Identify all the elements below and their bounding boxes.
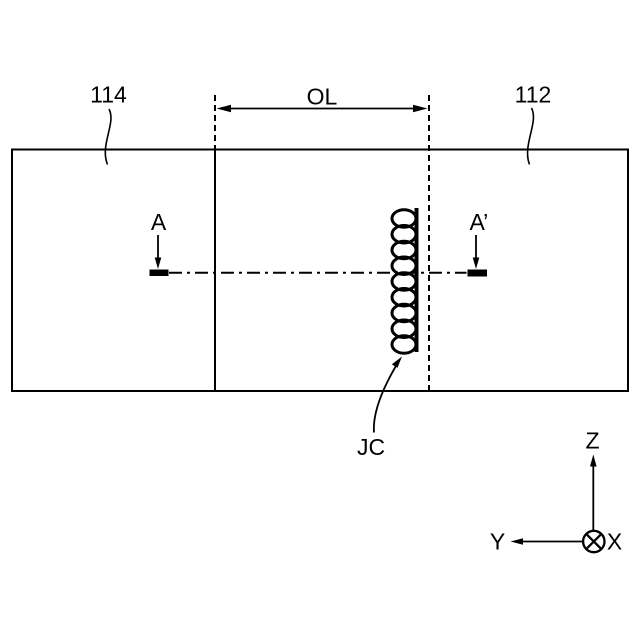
coil JC turn 9 [392, 336, 416, 354]
X axis symbol (circle with cross, pointing into page) [583, 531, 604, 552]
coil JC turn 3 [392, 241, 416, 259]
svg-text:JC: JC [357, 434, 385, 460]
svg-text:X: X [607, 529, 622, 555]
coil JC turn 4 [392, 257, 416, 275]
section tick A' [468, 270, 488, 277]
coil JC turn 7 [392, 304, 416, 322]
Z axis arrow [590, 455, 597, 531]
coil JC turn 2 [392, 226, 416, 244]
dashed extension line right (overlap boundary at x=429) [428, 95, 430, 391]
leader line 114 [105, 109, 111, 165]
svg-text:Z: Z [585, 428, 599, 454]
arrow A' (section pointer) [473, 235, 480, 269]
coil JC turn 1 [392, 210, 416, 228]
svg-text:A: A [151, 209, 167, 235]
section tick A [150, 270, 169, 277]
svg-text:Y: Y [490, 529, 505, 555]
member 114 outline (left block of enclosure) [12, 150, 215, 392]
centerline A-A' (dash-dot) [169, 272, 467, 274]
coil JC turn 8 [392, 320, 416, 338]
coil JC core bar [415, 208, 419, 352]
svg-text:A’: A’ [470, 209, 489, 235]
member 112 outline (right block of enclosure) [215, 150, 628, 392]
arrow A (section pointer) [155, 235, 162, 269]
svg-text:114: 114 [90, 82, 127, 108]
coil JC turn 6 [392, 289, 416, 307]
dimension arrow OL (double-headed) [217, 105, 428, 113]
svg-text:OL: OL [307, 84, 338, 110]
Y axis arrow [511, 538, 583, 545]
leader arrow JC [374, 357, 402, 433]
coil JC turn 5 [392, 273, 416, 291]
dashed extension line left (overlap boundary at x=215) [214, 95, 216, 149]
leader line 112 [528, 108, 534, 165]
svg-text:112: 112 [515, 82, 552, 108]
